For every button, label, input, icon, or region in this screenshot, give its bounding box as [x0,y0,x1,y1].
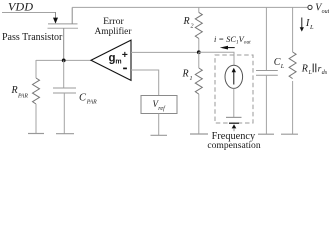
resistor R2 [195,12,202,38]
wire plus input to feedback node [131,51,199,53]
svg-text:R: R [11,85,18,96]
svg-text:VDD: VDD [8,0,33,14]
svg-text:R: R [301,64,308,75]
Vref box [141,96,177,114]
annotation current arrow left [228,47,235,49]
wire RL top [292,7,294,52]
pointer bar [229,122,239,124]
wire RPAR top [35,60,37,78]
ground CPAR [56,133,74,135]
resistor R1 [195,68,202,94]
svg-text:2: 2 [191,23,194,29]
wire minus input to Vref [131,70,159,96]
wire output rail Vout [72,6,308,8]
svg-text:C: C [274,57,281,68]
svg-text:1: 1 [190,76,193,82]
frequency compensation dashed box [215,55,253,123]
wire source stub [55,12,57,18]
svg-text:R: R [183,16,190,27]
svg-text:m: m [115,58,121,65]
wire CPAR bottom [63,93,65,134]
svg-text:L: L [309,24,314,31]
node feedback junction dot [197,50,201,54]
wire drain stub [71,7,73,24]
wire gate stub [63,28,65,60]
ground CL [258,133,274,135]
wire CL top [265,7,267,70]
wire CL bottom [265,75,267,134]
wire RPAR bottom [35,104,37,134]
svg-text:i = SC1Vout: i = SC1Vout [214,35,251,46]
terminal Vout circle [308,5,312,9]
wire feedback node to compensation [199,52,234,65]
wire R2 top [198,7,200,12]
ground current source [226,116,242,118]
wire RL bottom [292,81,294,134]
svg-text:R: R [182,69,189,80]
resistor RL [289,52,296,79]
wire R2 bottom [198,39,200,53]
wire VDD rail [2,12,56,14]
wire Vref ground lead [158,114,160,136]
wire R1 top [198,52,200,68]
ground RPAR [28,133,44,135]
ground R1 [190,133,208,135]
svg-text:L: L [280,64,285,70]
transistor M1 source arrow [53,18,58,24]
wire R1 bottom [198,94,200,134]
pointer arrowhead [232,124,237,128]
label minus input [123,67,127,69]
op-amp U1 triangle [91,40,131,80]
svg-text:+: + [122,49,128,61]
svg-text:ds: ds [322,69,328,76]
svg-text:compensation: compensation [207,140,260,151]
ground Vref [151,134,168,136]
current source arrow [233,72,235,85]
svg-text:out: out [322,9,329,15]
svg-text:L: L [308,70,313,76]
svg-text:PAR: PAR [86,99,97,105]
current source CS1 [225,65,243,88]
svg-text:C: C [79,92,87,103]
wire gate node horizontal [36,59,91,61]
svg-text:PAR: PAR [17,93,28,99]
annotation IL arrow [301,18,303,28]
svg-text:Pass Transistor: Pass Transistor [2,32,63,43]
svg-text:Amplifier: Amplifier [95,26,133,37]
wire CPAR top [63,60,65,88]
node gate junction dot [62,59,66,63]
resistor RPAR [33,78,40,104]
capacitor CL [256,71,278,76]
transistor M1 gate plate [48,27,79,29]
transistor M1 channel line [48,23,78,25]
svg-text:Error: Error [103,16,124,27]
wire current source bottom [233,88,235,117]
capacitor CPAR [53,88,76,93]
ground RL [281,133,298,135]
